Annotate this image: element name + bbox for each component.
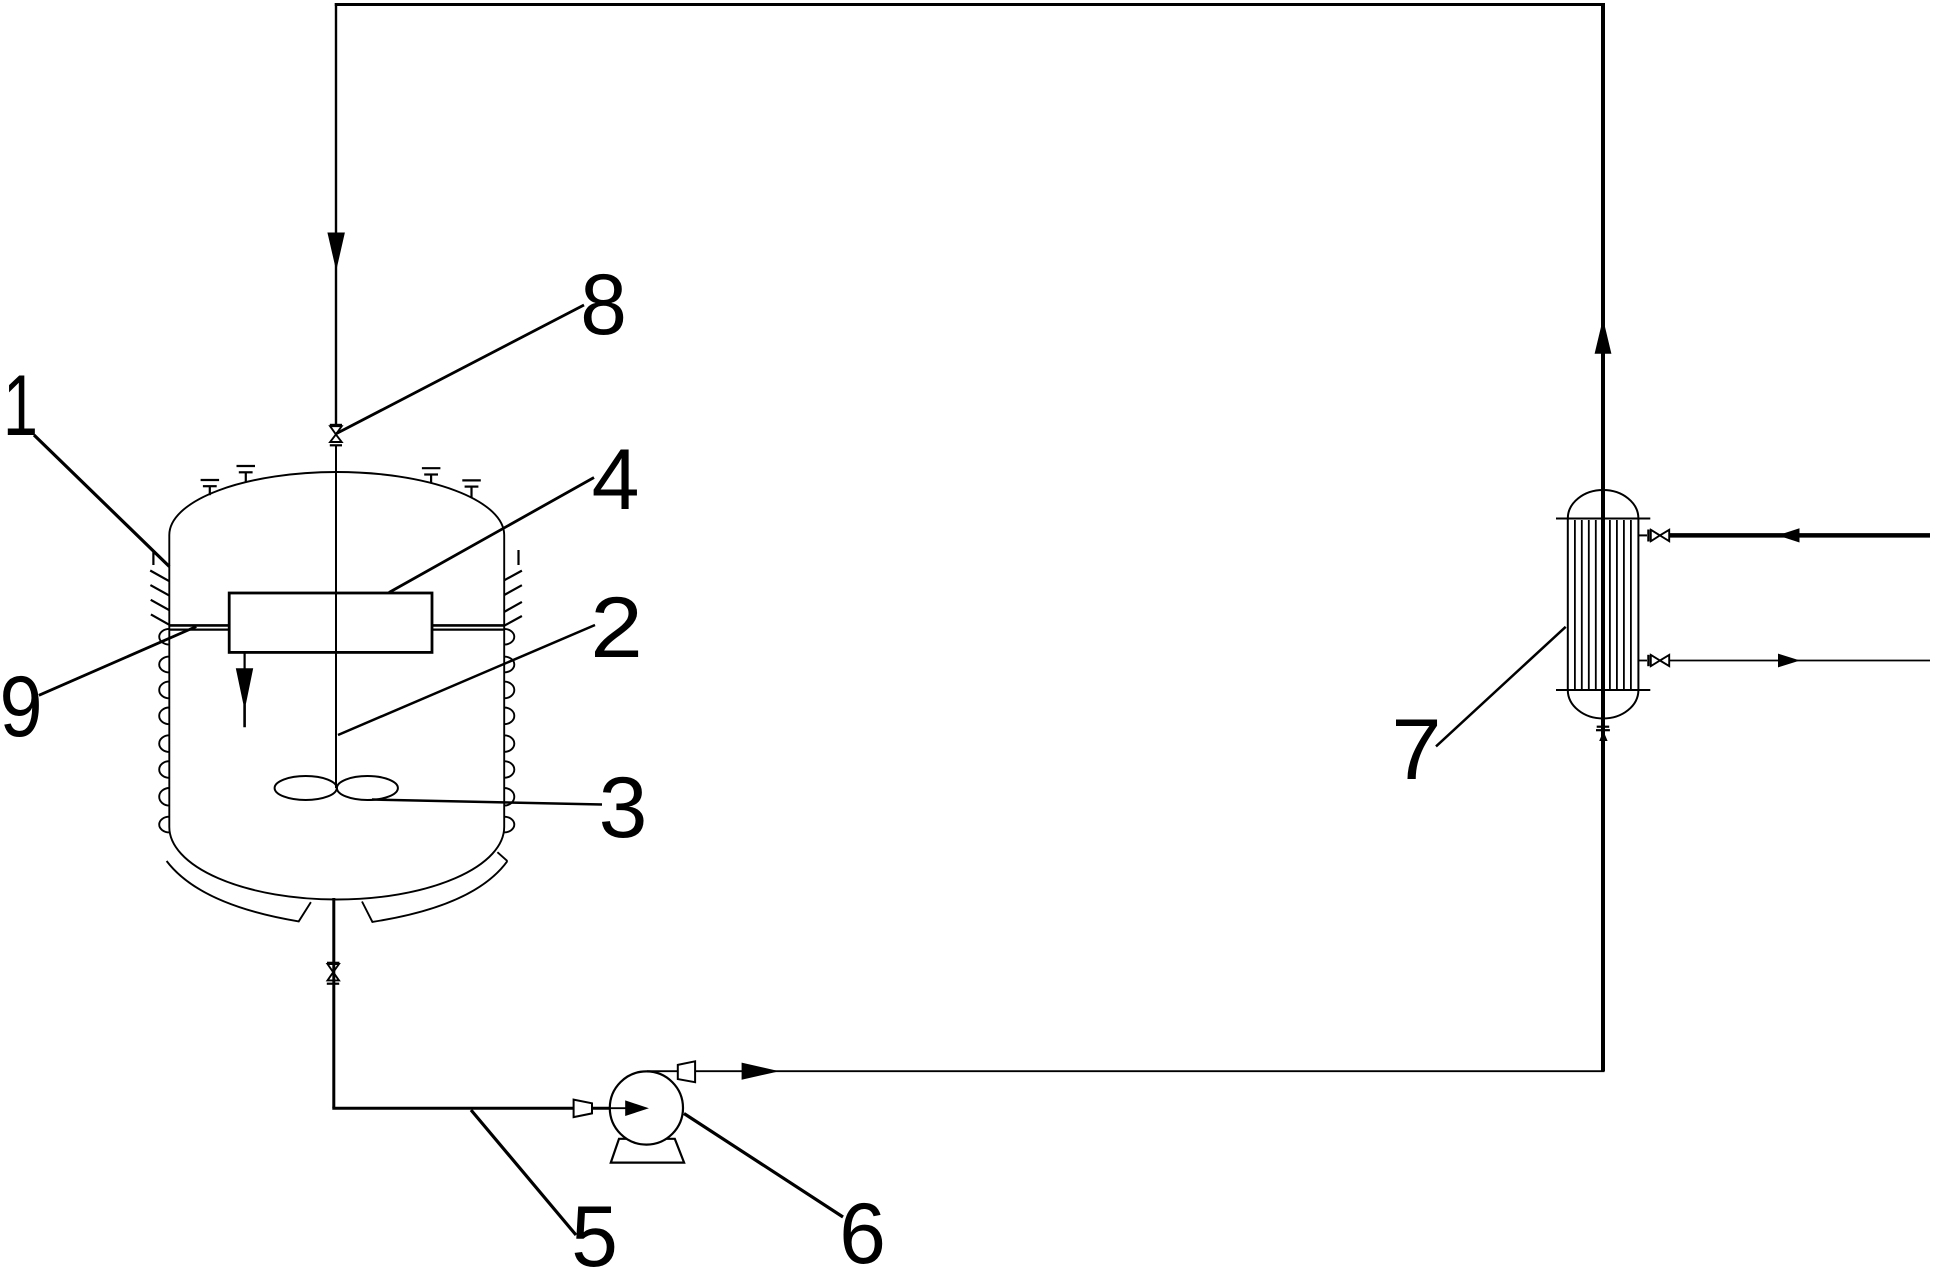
leader line 1	[34, 435, 169, 567]
support beam 9 right double line	[432, 625, 506, 629]
stirrer blade 3 right	[337, 776, 398, 800]
flow arrow up on riser	[1595, 319, 1612, 354]
valve 8	[330, 425, 342, 445]
nozzle 3 on vessel top	[422, 468, 441, 483]
cooling water inlet valve	[1638, 530, 1669, 542]
nozzle 2 on vessel top	[237, 466, 256, 483]
leader line 8	[337, 305, 585, 434]
svg-text:7: 7	[1391, 701, 1441, 798]
svg-text:6: 6	[839, 1185, 886, 1270]
motor box 4	[229, 593, 432, 652]
leader line 7	[1436, 627, 1566, 747]
cooling water outlet valve	[1638, 655, 1669, 666]
jacket hatching left	[150, 571, 169, 625]
support beam 9 left double line	[169, 625, 230, 629]
heat exchanger tubes	[1575, 520, 1631, 689]
nozzle 1 on vessel top	[201, 480, 220, 495]
svg-text:2: 2	[590, 580, 643, 676]
pump inlet arrow	[592, 1107, 628, 1109]
wire: vessel bottom outlet pipe	[332, 898, 335, 1108]
top tube sheet	[1556, 518, 1650, 520]
svg-text:3: 3	[599, 760, 648, 856]
flange under exchanger	[1596, 727, 1610, 731]
svg-text:9: 9	[0, 659, 43, 755]
wire: cooling water outlet line	[1670, 660, 1930, 662]
leader line 6	[684, 1114, 843, 1218]
skirt notch right	[497, 852, 507, 861]
stirrer blade 3 left	[275, 776, 337, 800]
svg-text:5: 5	[571, 1188, 618, 1270]
pump 6 base	[611, 1139, 684, 1163]
bottom drain valve	[327, 963, 340, 984]
flow arrow right on outlet line	[1778, 654, 1800, 668]
svg-text:4: 4	[592, 432, 640, 528]
heating coil left	[159, 629, 169, 833]
flow arrow right on discharge	[742, 1063, 780, 1080]
pump 6 casing	[610, 1071, 683, 1144]
leader line 5	[471, 1110, 576, 1235]
wire: left feed pipe	[335, 3, 337, 426]
leader line 9	[39, 627, 196, 696]
leader line 2	[338, 625, 595, 735]
wire: top header pipe	[335, 3, 1605, 6]
wire: discharge line to riser	[695, 1070, 1604, 1072]
down arrow under motor box	[244, 652, 246, 669]
svg-text:8: 8	[580, 256, 627, 352]
jacket hatch tick left	[152, 551, 154, 566]
suction reducer	[574, 1100, 592, 1118]
heat exchanger tube passing pipe	[1601, 490, 1605, 719]
flow arrow down on feed pipe	[327, 233, 345, 271]
bottom tube sheet	[1556, 689, 1650, 691]
heating coil right	[504, 629, 514, 833]
heat exchanger 7 shell	[1568, 490, 1639, 719]
leader line 4	[389, 478, 594, 593]
wire: pump discharge pipe	[647, 1070, 679, 1072]
jacket hatching right	[504, 571, 522, 626]
small up arrow under exchanger	[1599, 731, 1607, 741]
skirt left	[167, 861, 311, 921]
skirt right	[362, 861, 507, 922]
wire: cooling water inlet line	[1670, 533, 1930, 538]
flow arrow left on inlet line	[1778, 528, 1800, 542]
nozzle 4 on vessel top	[462, 480, 481, 498]
wire: riser pipe	[1601, 3, 1605, 1071]
leader line 3	[372, 800, 602, 805]
reactor vessel 1 shell	[169, 472, 504, 900]
jacket hatch tick right	[517, 550, 519, 565]
svg-text:1: 1	[3, 357, 38, 453]
wire: pump suction pipe	[332, 1107, 611, 1110]
discharge reducer	[678, 1061, 695, 1082]
wire: stirrer shaft 2	[335, 446, 337, 788]
